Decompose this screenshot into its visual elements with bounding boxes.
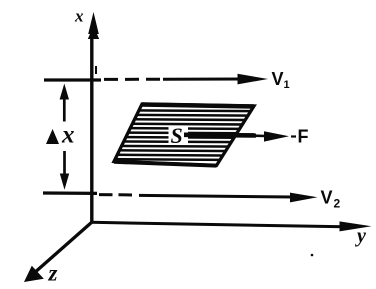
delta-x label bbox=[46, 129, 59, 144]
V1 dashed line bbox=[104, 78, 163, 81]
z-axis bbox=[33, 222, 92, 274]
svg-text:S: S bbox=[171, 123, 183, 148]
F dash after head bbox=[291, 135, 296, 137]
F arrow tail bbox=[184, 133, 256, 138]
V1 arrow shaft bbox=[163, 78, 243, 81]
y-axis bbox=[91, 222, 344, 227]
lower tick line bbox=[43, 191, 97, 195]
stray dot bbox=[311, 254, 314, 257]
F arrowhead bbox=[264, 131, 289, 141]
svg-text:F: F bbox=[298, 127, 309, 147]
V2 dashed line bbox=[99, 193, 136, 196]
delta-x upper arrow bbox=[63, 96, 66, 122]
V1 arrowhead bbox=[238, 74, 269, 85]
x-axis bbox=[90, 30, 93, 223]
V2 arrow shaft bbox=[139, 195, 293, 197]
upper tick line bbox=[44, 78, 101, 81]
y-axis arrowhead bbox=[340, 221, 372, 231]
surface S parallelogram bbox=[114, 104, 254, 166]
svg-text:V: V bbox=[272, 69, 284, 89]
svg-text:V: V bbox=[321, 188, 333, 208]
svg-text:2: 2 bbox=[334, 197, 341, 211]
S white box bbox=[169, 126, 189, 145]
svg-text:x: x bbox=[61, 122, 75, 149]
svg-text:y: y bbox=[355, 225, 366, 247]
hatching bbox=[100, 110, 260, 160]
stray mark above tick bbox=[95, 66, 97, 74]
z-axis arrowhead bbox=[24, 266, 44, 282]
svg-text:x: x bbox=[74, 7, 84, 26]
svg-text:1: 1 bbox=[284, 79, 290, 91]
x-axis arrowhead bbox=[88, 12, 99, 34]
svg-text:z: z bbox=[48, 261, 58, 286]
delta-x lower arrow bbox=[63, 151, 66, 176]
V2 arrowhead bbox=[290, 193, 318, 203]
